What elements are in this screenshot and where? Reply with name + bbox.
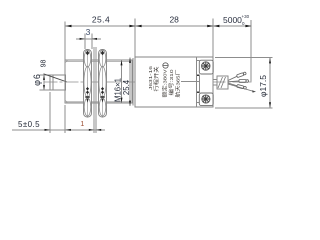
- wire leader phi6: [44, 74, 67, 82]
- node ext 1b: [95, 120, 97, 134]
- arrow M16 top: [121, 60, 123, 65]
- node extension line 3a: [84, 34, 86, 50]
- svg-text:额定:380V: 额定:380V: [162, 69, 169, 98]
- nut N1: [84, 50, 92, 118]
- wire w1: [228, 76, 237, 80]
- wire leader label: [181, 81, 199, 83]
- svg-text:25.4: 25.4: [92, 14, 110, 24]
- arrow M16 bottom: [121, 98, 123, 103]
- wire w2: [228, 80, 239, 83]
- housing body: [135, 57, 213, 107]
- arrow 5 left: [45, 129, 51, 131]
- svg-text:航天365厂: 航天365厂: [175, 69, 182, 97]
- terminal plate bottom: [199, 93, 213, 106]
- arrow 3 left: [80, 38, 85, 40]
- panel plate line a: [93, 47, 95, 120]
- arrow right end 5000: [245, 25, 251, 27]
- arrow 5 right: [65, 129, 71, 131]
- nut N2: [99, 50, 107, 118]
- node extension line x213: [212, 19, 214, 58]
- barrel M16 body: [65, 60, 132, 103]
- arrow phi6 top: [43, 75, 45, 80]
- svg-text:1: 1: [80, 121, 84, 128]
- svg-text:φ17.5: φ17.5: [258, 75, 268, 97]
- arrow 213 right: [213, 25, 219, 27]
- svg-text:25.4: 25.4: [122, 79, 131, 95]
- arrow 135 right: [136, 25, 142, 27]
- arrow 1 left: [89, 129, 94, 131]
- pin actuator: [50, 75, 65, 90]
- arrow phi17 top: [269, 58, 271, 64]
- node ext 5a: [49, 92, 51, 133]
- arrow phi6 bottom: [43, 85, 45, 90]
- cable neck: [213, 80, 217, 86]
- arrow 3 right: [92, 38, 97, 40]
- terminal plate top: [199, 60, 213, 74]
- screw S1: [202, 62, 210, 70]
- arrow phi17 bottom: [269, 102, 271, 108]
- svg-text:5±0.5: 5±0.5: [18, 120, 40, 129]
- partition line: [196, 57, 198, 107]
- node ext phi6 bottom: [40, 89, 51, 91]
- wire dim phi6: [43, 75, 45, 90]
- node ext phi6 top: [40, 74, 51, 76]
- node extension line x65: [64, 22, 66, 61]
- svg-text:5000: 5000: [223, 15, 242, 25]
- node ext 5b: [64, 105, 66, 133]
- gland hatch: [218, 77, 223, 88]
- svg-text:3: 3: [86, 27, 91, 37]
- cable gland: [217, 76, 228, 89]
- screw S2: [202, 95, 210, 103]
- centerline: [44, 81, 254, 83]
- terminal channel: [198, 74, 200, 93]
- node ext 1a: [93, 120, 95, 134]
- wire w4: [228, 84, 254, 92]
- arrow 25.4v top: [129, 58, 131, 63]
- svg-text:28: 28: [169, 14, 179, 24]
- node ext phi17 top: [215, 57, 272, 59]
- svg-text:行程开关: 行程开关: [153, 67, 160, 92]
- wire dim 3 line: [76, 38, 101, 40]
- svg-text:98: 98: [41, 60, 48, 68]
- washer ring line: [132, 58, 134, 106]
- wire dim phi17: [269, 58, 271, 109]
- LED indicator: [163, 63, 168, 68]
- node extension line 3b: [91, 34, 93, 50]
- wire dim M16: [121, 60, 123, 103]
- panel plate line b: [95, 47, 97, 120]
- svg-text:+30: +30: [242, 14, 250, 19]
- svg-text:编号:310: 编号:310: [168, 69, 175, 95]
- arrow 1 right: [96, 129, 101, 131]
- wire w3: [228, 83, 237, 86]
- arrow 25.4v bottom: [129, 101, 131, 106]
- node extension line x251: [250, 20, 252, 82]
- wire top dimension line: [65, 25, 251, 27]
- arrow 213 left: [207, 25, 213, 27]
- arrow 135 left: [129, 25, 135, 27]
- arrow left end 25.4: [65, 25, 71, 27]
- node ext phi17 bottom: [215, 107, 272, 109]
- wire dim 25.4v: [129, 58, 131, 107]
- node extension line x135: [134, 19, 136, 58]
- wire dim bottom line: [12, 129, 105, 131]
